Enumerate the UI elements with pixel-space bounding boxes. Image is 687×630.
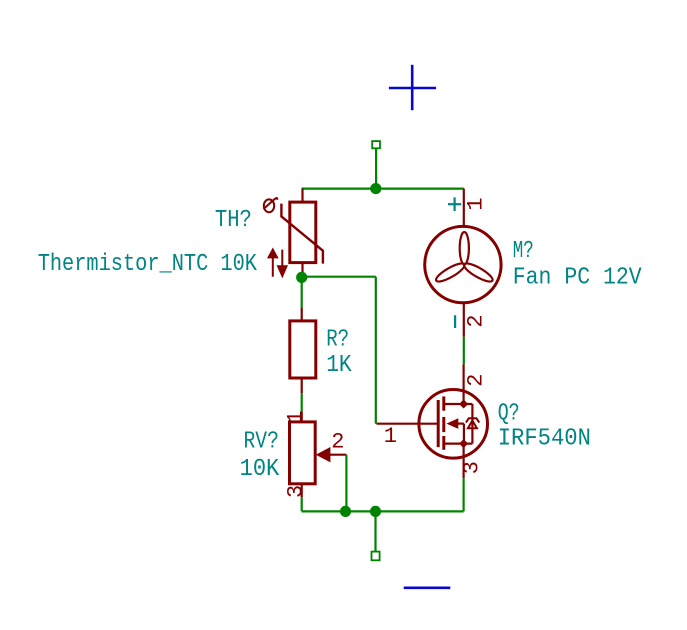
junction bottom right	[370, 506, 381, 517]
transistor Q? (IRF540N)	[377, 364, 488, 478]
source connection	[445, 443, 473, 445]
fan M?	[425, 189, 501, 337]
svg-text:1: 1	[284, 410, 309, 423]
svg-text:RV?: RV?	[244, 429, 279, 456]
svg-text:1: 1	[463, 197, 488, 210]
wire down to bottom square	[374, 511, 376, 551]
thermistor TH?	[281, 189, 323, 277]
wire top horizontal VCC bus	[302, 188, 464, 190]
svg-text:Fan PC 12V: Fan PC 12V	[513, 265, 642, 292]
potentiometer wiper arrow	[316, 447, 331, 462]
svg-text:Thermistor_NTC 10K: Thermistor_NTC 10K	[38, 251, 258, 278]
svg-text:1K: 1K	[326, 352, 352, 379]
unconnected top terminal square	[372, 141, 380, 148]
svg-text:R?: R?	[326, 326, 349, 353]
wire RV pin3 down	[301, 497, 303, 511]
resistor R?	[290, 307, 316, 393]
svg-text:M?: M?	[513, 238, 534, 265]
power flag + (plus marker)	[389, 65, 436, 110]
svg-text:3: 3	[460, 461, 485, 474]
wire junction to gate column horizontal	[302, 276, 376, 278]
fan pin name -	[454, 315, 456, 328]
drain connection	[445, 403, 473, 405]
svg-text:TH?: TH?	[215, 207, 252, 234]
svg-text:2: 2	[331, 430, 344, 455]
substrate arrow head	[446, 418, 458, 429]
fan pin name +	[448, 197, 461, 211]
thermistor up/down arrows	[269, 250, 287, 277]
svg-text:10K: 10K	[240, 456, 280, 483]
svg-text:2: 2	[464, 373, 489, 386]
wire junction down to R	[301, 277, 303, 307]
wire source to GND bus	[463, 478, 465, 511]
junction bottom left	[340, 506, 351, 517]
svg-text:3: 3	[284, 485, 309, 498]
gate bar	[437, 400, 440, 447]
wire top vertical from square to bus	[375, 148, 377, 188]
svg-text:IRF540N: IRF540N	[498, 426, 591, 453]
transistor junction diamonds	[459, 399, 468, 408]
thermistor theta glyph	[264, 198, 278, 212]
svg-text:Q?: Q?	[498, 400, 520, 427]
wire R to RV	[301, 393, 303, 411]
channel dashes	[442, 396, 445, 410]
svg-text:2: 2	[463, 314, 488, 327]
gate pin	[377, 423, 439, 425]
wire wiper down	[345, 455, 347, 512]
junction top	[370, 183, 381, 194]
right branch with body diode	[471, 404, 473, 444]
power flag - (minus marker)	[404, 586, 451, 589]
wire fan to drain	[463, 337, 465, 365]
svg-text:1: 1	[384, 424, 397, 449]
substrate arrow to source	[456, 423, 464, 425]
wire gate column vertical	[375, 277, 377, 424]
potentiometer RV?	[290, 411, 347, 497]
junction thermistor bottom	[296, 272, 307, 283]
unconnected bottom terminal square	[372, 552, 380, 561]
wire bottom horizontal GND bus	[302, 510, 464, 512]
